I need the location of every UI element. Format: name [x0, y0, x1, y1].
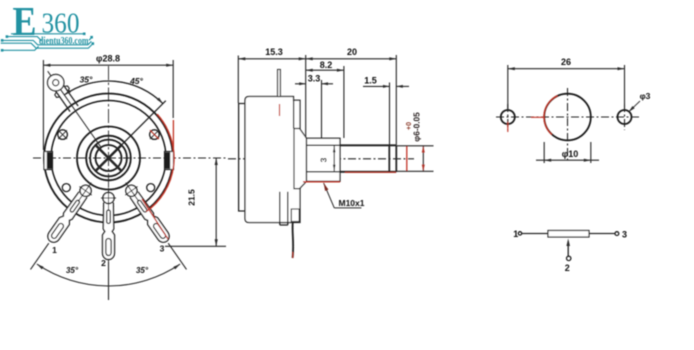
- svg-text:φ10: φ10: [562, 149, 578, 159]
- svg-text:3.3: 3.3: [308, 74, 321, 84]
- svg-text:φ6-0.05: φ6-0.05: [412, 112, 422, 142]
- svg-text:1.5: 1.5: [364, 76, 377, 86]
- svg-text:dientu360.com: dientu360.com: [39, 36, 89, 47]
- svg-text:φ28.8: φ28.8: [96, 54, 120, 64]
- svg-text:35°: 35°: [136, 266, 149, 275]
- svg-text:φ3: φ3: [640, 91, 651, 101]
- svg-text:3: 3: [160, 244, 165, 254]
- svg-text:35°: 35°: [80, 75, 93, 85]
- svg-text:M10x1: M10x1: [339, 198, 365, 208]
- svg-text:3: 3: [622, 230, 627, 240]
- svg-text:15.3: 15.3: [265, 47, 283, 57]
- svg-text:360: 360: [42, 7, 80, 39]
- svg-text:1: 1: [513, 229, 518, 239]
- svg-text:21.5: 21.5: [187, 189, 197, 206]
- svg-text:8.2: 8.2: [320, 60, 333, 70]
- svg-text:26: 26: [561, 57, 571, 67]
- svg-text:E: E: [13, 0, 37, 44]
- svg-text:1: 1: [52, 245, 57, 255]
- svg-text:35°: 35°: [66, 266, 79, 275]
- svg-text:2: 2: [565, 263, 570, 273]
- svg-text:20: 20: [347, 47, 357, 57]
- svg-text:45°: 45°: [129, 76, 143, 86]
- svg-text:3: 3: [319, 157, 329, 162]
- svg-text:2: 2: [101, 258, 106, 268]
